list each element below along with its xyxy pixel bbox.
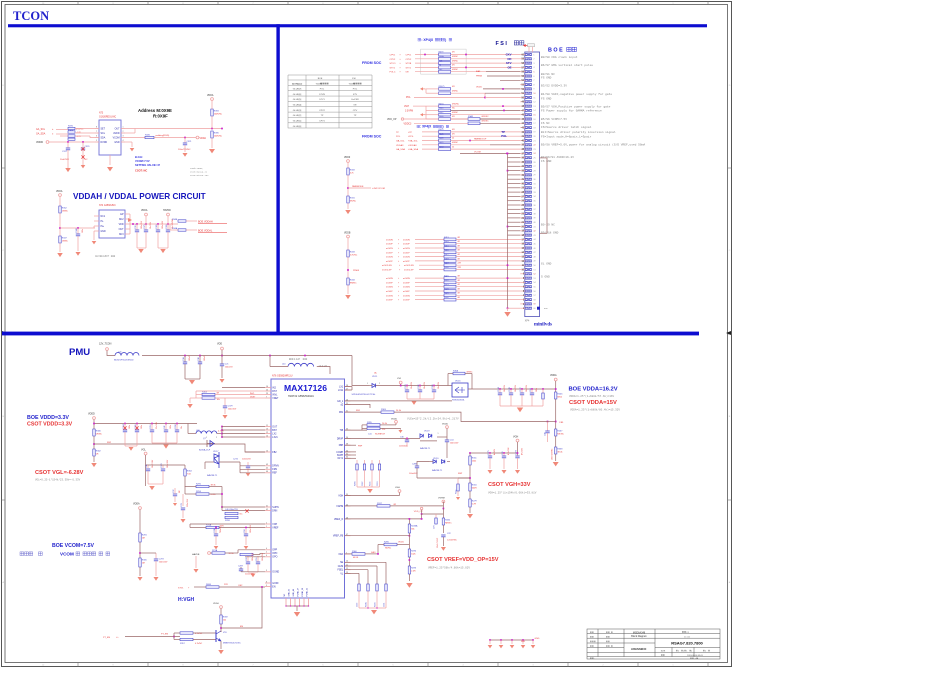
ground under OP caps (248, 571, 258, 573)
mosfet VD16 (452, 383, 468, 397)
wires SE CLIM FSEL VL rows (345, 561, 387, 563)
svg-text:B9/S18 GND: B9/S18 GND (541, 230, 559, 234)
svg-text:): ) (445, 38, 446, 42)
wire VD16 to VDDA rail (468, 388, 497, 390)
svg-text:B0/S1 NC: B0/S1 NC (541, 72, 555, 76)
resistor R394 (211, 109, 213, 116)
svg-text:VGH=1.25*(1+154k/6.06k)=33.81V: VGH=1.25*(1+154k/6.06k)=33.81V (488, 491, 537, 495)
wire VGHM pin row (345, 505, 378, 507)
capacitor C317 (67, 142, 69, 148)
svg-text:1: 1 (266, 526, 267, 528)
svg-text:10u/25V: 10u/25V (424, 381, 426, 389)
svg-text:0R5/NC: 0R5/NC (452, 103, 460, 105)
svg-text:100uF: 100uF (204, 355, 206, 361)
svg-text:CSOT: NC: CSOT: NC (135, 169, 147, 173)
svg-text:OUT: OUT (115, 129, 120, 131)
wire VDDA down (59, 197, 61, 207)
svg-text:FBP: FBP (458, 473, 463, 475)
resistor R429 (439, 143, 451, 146)
svg-text:mLV0N: mLV0N (386, 239, 393, 241)
svg-text:»GA_SDA: »GA_SDA (408, 148, 419, 151)
svg-text:R368: R368 (557, 448, 563, 450)
wires R295 R294 (185, 486, 196, 488)
capacitor C21 (221, 356, 223, 365)
svg-text:VDDD: VDDD (36, 141, 43, 144)
svg-text:B1/S8 VGFF,negative power supp: B1/S8 VGFF,negative power supply for gat… (541, 92, 612, 96)
svg-text:PGND_37: PGND_37 (298, 588, 300, 597)
svg-text:C43: C43 (502, 452, 504, 455)
ground under C317 (67, 150, 69, 168)
resistor R345 (145, 136, 154, 138)
svg-text:23: 23 (266, 393, 268, 395)
svg-text:TCON: TCON (13, 9, 49, 23)
svg-text:R342: R342 (445, 519, 451, 521)
blue vertical divider (276, 24, 279, 333)
wire N73 VCOM to R345 (125, 137, 145, 139)
svg-text:LX11: LX11 (338, 390, 344, 392)
resistor R39A above VD16 (453, 372, 465, 375)
resistor R379 (439, 53, 451, 56)
wire VDDA3 to pin (451, 144, 521, 146)
wire 12V to L41 (107, 351, 115, 356)
svg-text:2k: 2k (452, 146, 454, 148)
svg-text:600R: 600R (472, 488, 477, 490)
svg-text:1: 1 (206, 437, 207, 439)
resistor R306 (93, 429, 95, 436)
ground under R302 (93, 456, 95, 462)
capacitor C16 OP (257, 556, 259, 562)
svg-text:N73: N73 (99, 113, 104, 115)
resistor R425 (439, 130, 451, 133)
capacitor C216 (151, 424, 153, 431)
svg-text:C395: C395 (166, 224, 168, 229)
svg-text:C40 430n/25V: C40 430n/25V (225, 509, 238, 511)
wire CPV2 to pin (451, 58, 521, 60)
svg-text:9: 9 (266, 585, 267, 587)
svg-text:VD16: VD16 (455, 381, 461, 383)
resistor R309 (381, 411, 394, 413)
resistor R318 (347, 168, 349, 175)
wire XAO row (345, 553, 353, 555)
wire TrB row (345, 429, 368, 431)
svg-text:GLUE[6]: GLUE[6] (293, 94, 302, 96)
svg-text:GLUE[2]: GLUE[2] (293, 115, 302, 117)
arrow stub POL group (420, 87, 423, 90)
svg-text:VDDA: VDDA (391, 418, 397, 421)
svg-text:VDDA: VDDA (550, 374, 557, 377)
svg-text:On/OFF: On/OFF (351, 99, 360, 101)
svg-text:»VDDA3: »VDDA3 (408, 144, 417, 147)
ground under cap bank right (160, 249, 166, 253)
resistor R36A (439, 57, 451, 60)
svg-text:VDET: VDET (272, 398, 279, 400)
connector XP4 pins (520, 53, 531, 309)
svg-text:R331: R331 (350, 197, 356, 199)
resistor R281 (139, 533, 141, 542)
svg-text:CSOT VDDA=15V: CSOT VDDA=15V (569, 400, 617, 406)
capacitor C42 (165, 424, 167, 431)
resistor R303 (202, 393, 215, 395)
svg-text:R3A5: R3A5 (468, 115, 474, 118)
svg-text:0R/NC: 0R/NC (452, 60, 459, 62)
svg-text:DRVN: DRVN (272, 466, 279, 468)
svg-text:GND: GND (114, 142, 119, 144)
resistor R294 (196, 493, 209, 495)
svg-text:10u/25V: 10u/25V (504, 384, 506, 392)
svg-text:R311: R311 (472, 457, 478, 459)
svg-text:FBP: FBP (339, 445, 344, 447)
capacitor C304 NC (124, 424, 126, 431)
svg-text:1: 1 (367, 383, 368, 385)
svg-text:LX21: LX21 (272, 437, 278, 439)
svg-text:mLV0P: mLV0P (386, 244, 393, 246)
svg-text:3.3VFM: 3.3VFM (405, 110, 413, 112)
resistor R415 (444, 247, 456, 250)
resistor R34B VDDAH (178, 220, 186, 222)
svg-text:10u/25V: 10u/25V (411, 381, 413, 389)
resistor R246 (555, 392, 557, 399)
capacitor C379 (224, 398, 226, 406)
net stub above connector (528, 46, 530, 53)
resistor R279 (469, 491, 471, 499)
svg-text:VCOM: VCOM (113, 138, 120, 140)
wire OE to pin (451, 71, 521, 73)
wires FBP COMP SUPP DLY1 (345, 444, 357, 446)
resistor R345 group C (439, 109, 451, 112)
svg-text:2: 2 (123, 131, 124, 133)
svg-text:B5/S6 VCOM=7.5V: B5/S6 VCOM=7.5V (541, 117, 567, 121)
svg-text:Block Diagram: Block Diagram (631, 635, 647, 638)
svg-text:mLV0N: mLV0N (403, 239, 410, 241)
resistor R381 (68, 135, 75, 137)
svg-text:GA_SCL: GA_SCL (396, 140, 405, 143)
svg-text:0R/NC: 0R/NC (452, 91, 459, 93)
svg-text:C17B: C17B (509, 387, 511, 392)
svg-text:XAO: XAO (371, 551, 376, 554)
svg-text:POL: POL (320, 88, 325, 90)
net BOE VDDAL (186, 229, 197, 231)
ground under C348 (77, 236, 79, 251)
svg-text:B3/S2 DVDD=3.3V: B3/S2 DVDD=3.3V (541, 84, 567, 88)
svg-text:100n: 100n (129, 425, 131, 429)
svg-text:0R/NC: 0R/NC (452, 142, 459, 144)
svg-text:R394: R394 (214, 110, 220, 112)
wire OGND row (240, 570, 242, 573)
resistor R310 (469, 483, 471, 491)
capacitor C315 (136, 224, 138, 230)
svg-text:NK/NC: NK/NC (557, 434, 564, 436)
svg-text:S GND: S GND (541, 276, 550, 279)
svg-text:VD17: VD17 (213, 451, 219, 453)
svg-text:mLV0P: mLV0P (403, 244, 410, 246)
ground under R305 (139, 567, 141, 576)
svg-text:C46: C46 (146, 465, 148, 468)
svg-text:RM/NC: RM/NC (350, 283, 357, 285)
svg-text:B9/S7 VGH,Positive power suppl: B9/S7 VGH,Positive power supply for gate (541, 104, 611, 108)
svg-text:GND: GND (101, 231, 106, 233)
svg-text:mLVCLKN: mLVCLKN (382, 265, 392, 267)
svg-text:4.7u/50V: 4.7u/50V (508, 447, 510, 455)
right edge pointer mark (726, 331, 731, 335)
svg-text:4: 4 (123, 140, 124, 142)
left edge pointer mark (2, 331, 7, 335)
wire VDD0 down (347, 163, 349, 169)
sheet outer border (2, 2, 732, 667)
svg-text:R375: R375 (68, 126, 74, 128)
ground under R434 (345, 295, 351, 299)
resistor R347 (59, 236, 61, 243)
inductor L41 (115, 353, 139, 356)
junction dots group A (424, 54, 426, 56)
blue divider under title (8, 24, 707, 27)
ground under R347 (57, 253, 63, 257)
wire SUPN DRN rows (222, 506, 265, 508)
svg-text:CPV: CPV (353, 110, 358, 112)
transistor V19 MMBT3904 (215, 630, 217, 642)
svg-text:5: 5 (266, 552, 267, 554)
wire R345 to pin (451, 109, 521, 111)
svg-text:mLV5N: mLV5N (386, 295, 393, 297)
svg-text:R425: R425 (444, 293, 449, 295)
svg-text:POL: POL (396, 136, 401, 138)
svg-text:VGHM: VGHM (438, 498, 445, 500)
connector pin numbers right (533, 54, 536, 310)
svg-text:GA_SDA: GA_SDA (396, 148, 405, 151)
capacitor C275 (489, 453, 491, 456)
svg-text:C49: C49 (545, 433, 547, 436)
connector XP4 body (525, 52, 540, 317)
svg-text:OE: OE (406, 72, 410, 74)
svg-text:0R/NC: 0R/NC (452, 56, 459, 58)
svg-text:100n/25V: 100n/25V (250, 524, 252, 533)
svg-text:R293: R293 (411, 567, 417, 569)
svg-text:DRVP: DRVP (337, 438, 344, 440)
VGH rail (517, 442, 519, 455)
capacitor CA2 AVDD (199, 356, 201, 363)
svg-text:GL GND: GL GND (541, 263, 552, 266)
resistor R38 (439, 62, 451, 65)
resistor R300 group C (439, 118, 451, 121)
svg-text:42: 42 (266, 509, 268, 511)
svg-text:mLV4N: mLV4N (386, 287, 393, 289)
svg-text:»POL: »POL (408, 136, 414, 138)
wire row pin54 (500, 79, 520, 81)
svg-text:R279: R279 (472, 500, 478, 502)
svg-text:100n: 100n (170, 425, 172, 429)
svg-text:mLV2P: mLV2P (386, 261, 393, 263)
svg-text:R21A: R21A (212, 549, 218, 552)
ground under compensation cluster (357, 486, 380, 488)
sideways cap C3xx (173, 493, 177, 495)
resistor R267 (555, 429, 557, 436)
svg-text:R34B: R34B (172, 219, 178, 221)
svg-text:RSAG7.820.7800: RSAG7.820.7800 (671, 640, 703, 645)
wire SDA to IC (56, 133, 68, 135)
blue divider above PMU (2, 332, 699, 336)
svg-text:C315: C315 (135, 224, 137, 229)
resistor R331 (347, 196, 349, 203)
svg-text:VDDA: VDDA (141, 209, 148, 212)
svg-text:4.7uH: 4.7uH (218, 431, 224, 433)
svg-text:C275: C275 (488, 450, 490, 455)
svg-text:FSI: FSI (352, 78, 356, 80)
svg-text:1: 1 (123, 127, 124, 129)
wire VGL down to caps (146, 455, 148, 465)
svg-text:H3VDD: H3VDD (163, 210, 171, 212)
svg-text:R318: R318 (350, 169, 356, 171)
svg-text:EP: EP (120, 214, 124, 216)
sideways cap C2R (435, 514, 437, 518)
wire FB2 to IC (94, 444, 265, 452)
inductor L48 (196, 431, 217, 434)
note vcom adjust chinese (20, 552, 24, 556)
svg-text:R352: R352 (62, 207, 68, 209)
ground bus stubs to pins (508, 158, 521, 235)
IC left pins (265, 386, 280, 589)
svg-text:OGND: OGND (272, 572, 279, 574)
ground under C321 (184, 145, 186, 152)
svg-text:««NP:VCOM: ««NP:VCOM (372, 188, 385, 190)
svg-text:OPP: OPP (272, 550, 277, 552)
resistor R420 (444, 268, 456, 271)
capacitor C74 (182, 494, 184, 506)
svg-text:VCOM: VCOM (60, 552, 74, 557)
svg-text:R359: R359 (223, 616, 229, 618)
svg-text:GD_1: GD_1 (337, 401, 344, 403)
svg-text:R424: R424 (444, 288, 449, 290)
svg-text:mLV1N: mLV1N (386, 248, 393, 250)
ground bus left of connector (507, 153, 509, 308)
svg-text:100K/NC: 100K/NC (214, 136, 223, 138)
svg-text:NC3: NC3 (119, 234, 124, 236)
svg-text:12V_TCON: 12V_TCON (99, 343, 112, 346)
note inductor loop (289, 358, 291, 360)
wire FB2 pin row (245, 451, 265, 453)
svg-text:3: 3 (266, 570, 267, 572)
svg-text:VDD0: VDD0 (213, 603, 220, 605)
svg-text:CSOT VDDD=3.3V: CSOT VDDD=3.3V (27, 422, 73, 428)
svg-text:7: 7 (266, 396, 267, 398)
svg-text:B7/S6/S1 AVDD=16.2V: B7/S6/S1 AVDD=16.2V (541, 155, 574, 159)
svg-text:100n/25V: 100n/25V (159, 561, 168, 563)
resistor R34A VDDAL (178, 229, 186, 231)
resistor R300 XAO (352, 553, 365, 556)
capacitor C17D (531, 389, 533, 393)
svg-text:GND_36: GND_36 (289, 589, 291, 596)
capacitor C44 (445, 439, 449, 441)
note XP4 to X-board lower (417, 125, 420, 128)
svg-text:VGL: VGL (141, 449, 146, 452)
resistor R15 sideways (542, 389, 544, 393)
wire VREF_O row (345, 518, 422, 520)
wire L40 left (270, 366, 288, 368)
svg-text:BOE VDDD=3.3V: BOE VDDD=3.3V (27, 415, 69, 421)
wire third to IC (60, 135, 68, 137)
resistor R342 group C (439, 113, 451, 116)
svg-text:VCOM=7.5V: VCOM=7.5V (135, 159, 150, 163)
resistor R364 (184, 465, 186, 469)
svg-text:PGND_35: PGND_35 (307, 588, 309, 597)
resistor R29x (225, 516, 238, 518)
wire R359 to EN node (220, 624, 222, 632)
svg-text:VGH: VGH (404, 106, 409, 108)
ground under C293 (155, 561, 157, 576)
selection box around series resistors (421, 49, 467, 74)
connector pin function annotations (541, 55, 645, 279)
svg-text:STVB: STVB (319, 94, 325, 96)
svg-text:C329: C329 (85, 146, 91, 148)
OUT bus vertical (221, 427, 223, 438)
svg-text:VD19: VD19 (424, 431, 430, 433)
resistor R426 (444, 298, 456, 301)
svg-text:BOE VDDAL: BOE VDDAL (198, 230, 213, 233)
wires FRN REF rows (240, 468, 265, 470)
ground under R331 (345, 210, 351, 214)
svg-text:FB2: FB2 (272, 452, 277, 454)
svg-text:STVB: STVB (406, 63, 412, 65)
svg-text:VDDB: VDDB (344, 233, 351, 235)
svg-text:1: 1 (438, 433, 439, 435)
title block table (587, 629, 720, 659)
svg-text:47u/50V: 47u/50V (522, 447, 524, 455)
svg-text:mLV5P: mLV5P (386, 300, 393, 302)
capacitor C28 OP (247, 556, 249, 562)
svg-text:13: 13 (266, 428, 268, 430)
ground under cap bank left (138, 249, 144, 253)
wire STVB to pin (451, 62, 521, 64)
wire N73 AVDD (125, 132, 135, 134)
svg-text:B0-29 NC: B0-29 NC (541, 224, 555, 227)
svg-text:H1RT22 G5582WR11U: H1RT22 G5582WR11U (288, 395, 314, 398)
svg-text:R39A: R39A (453, 370, 459, 373)
resistor R422 (444, 281, 456, 284)
svg-text:VDDA: VDDA (133, 503, 140, 506)
svg-text:R416: R416 (444, 250, 449, 252)
svg-text:VGL=0.25-1*154k/23.39k=-6.33V: VGL=0.25-1*154k/23.39k=-6.33V (35, 478, 81, 482)
svg-text:C302: C302 (418, 384, 420, 389)
svg-text:padding(R345): padding(R345) (156, 135, 170, 137)
wire R396 to ground (211, 138, 213, 148)
svg-text:R30C: R30C (370, 481, 372, 486)
svg-text:AUDIT: AUDIT (102, 255, 109, 258)
svg-text:1u/50V/NC: 1u/50V/NC (447, 540, 457, 542)
resistor R6 (439, 66, 451, 69)
svg-text:HISENSE: HISENSE (631, 647, 643, 651)
svg-text:mLV1N: mLV1N (403, 248, 410, 250)
svg-text:R294: R294 (196, 491, 202, 493)
svg-text:R417: R417 (444, 254, 449, 256)
wire rail down right (352, 356, 369, 386)
svg-text:C348: C348 (76, 228, 78, 233)
op-amp U N73 VCOM DAC (99, 120, 121, 155)
svg-text:R423: R423 (444, 284, 449, 286)
svg-text:C17C: C17C (520, 387, 522, 392)
svg-text:10u/25V: 10u/25V (515, 384, 517, 392)
svg-text:100n/50V/NC: 100n/50V/NC (552, 448, 554, 460)
svg-text:4.7k/NC: 4.7k/NC (350, 255, 358, 257)
svg-text:OPO: OPO (272, 557, 277, 559)
resistor R375 (68, 127, 75, 129)
wire VD17 net (219, 461, 240, 463)
svg-text:PIN65: PIN65 (353, 270, 360, 272)
svg-text:VDDA: VDDA (56, 190, 63, 193)
IC bottom pins (284, 588, 309, 606)
svg-text:PMU: PMU (69, 347, 90, 358)
svg-text:N76 G5582WR11U: N76 G5582WR11U (272, 375, 293, 378)
svg-text:mLV4P: mLV4P (386, 291, 393, 293)
svg-text:BBB : AA: BBB : AA (690, 657, 699, 660)
right side gnd stub bus (540, 157, 548, 159)
